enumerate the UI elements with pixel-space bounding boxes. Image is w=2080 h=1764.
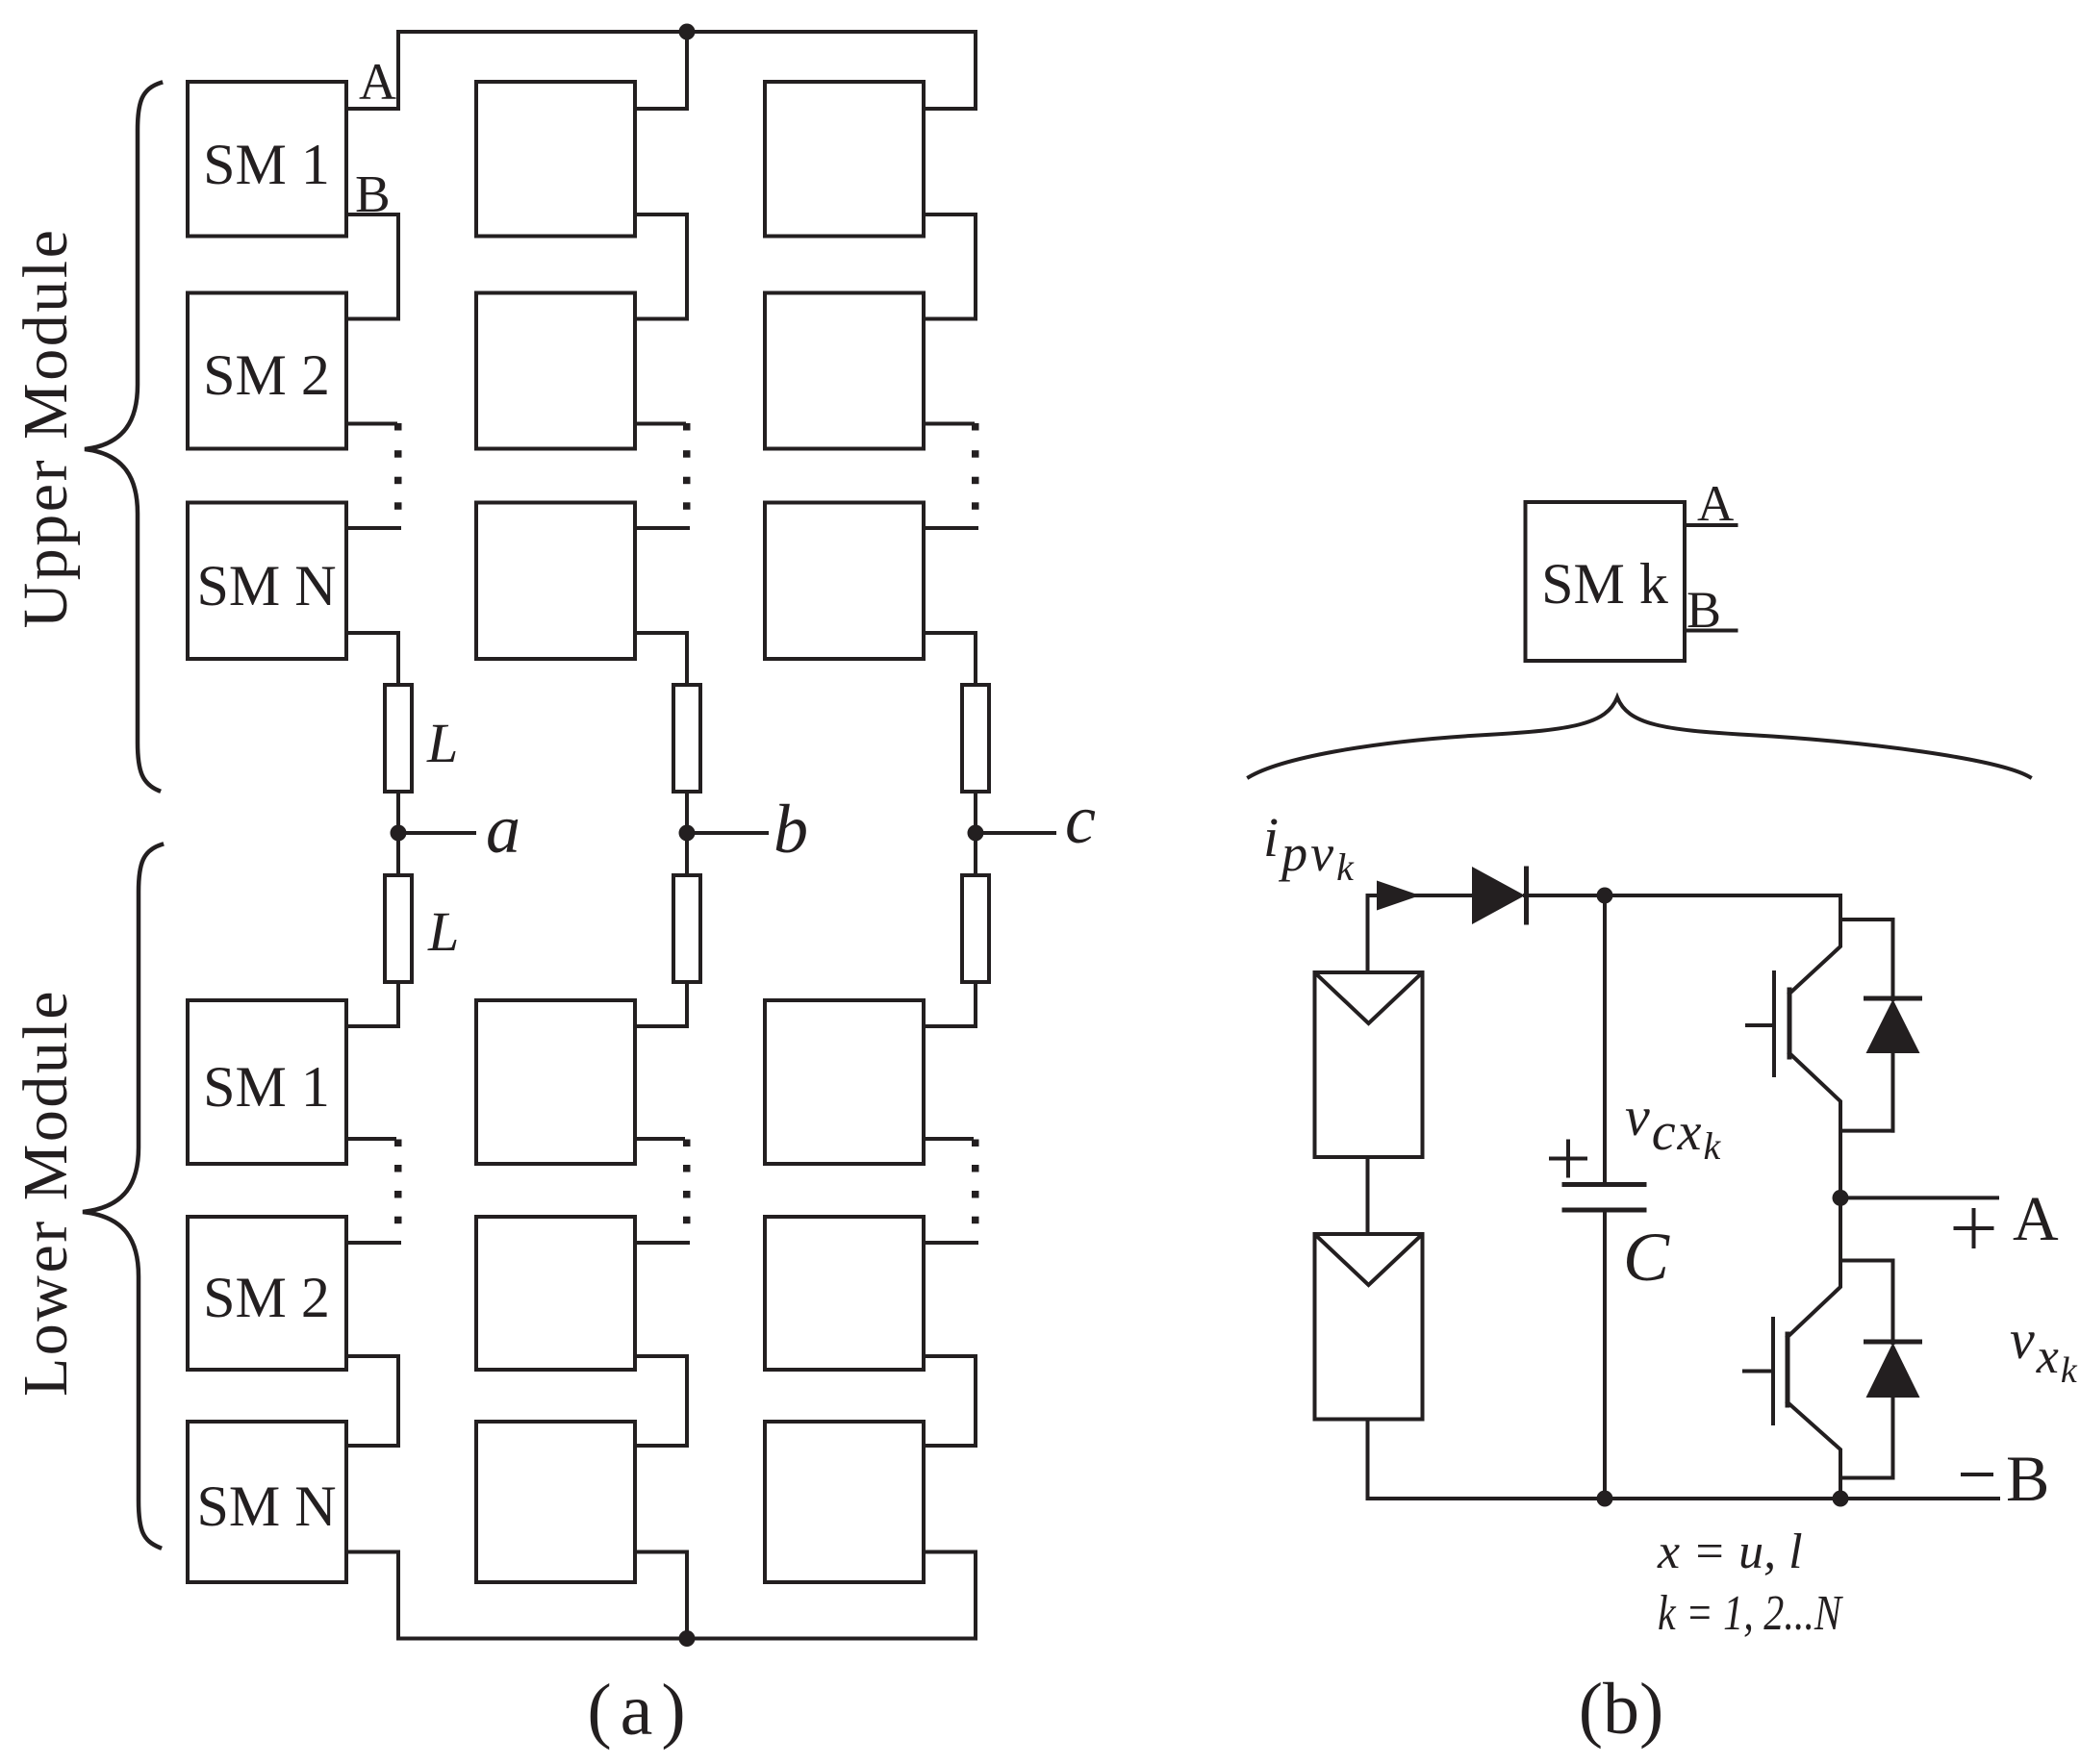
- svg-text:k = 1, 2...N: k = 1, 2...N: [1658, 1586, 1844, 1641]
- IGBT T1 emitter: [1789, 1053, 1840, 1197]
- node cap top: [1597, 888, 1613, 904]
- IGBT T1 emitter-diode stub: [1840, 1129, 1893, 1133]
- wire inductor to node a: [396, 792, 400, 875]
- diode D2 triangle: [1866, 1343, 1920, 1398]
- IGBT T1 gate bar: [1772, 972, 1776, 1075]
- svg-text:L: L: [427, 900, 459, 963]
- svg-text:A: A: [2013, 1184, 2059, 1254]
- wire pv2 to rail: [1366, 1420, 1370, 1499]
- node bottom junction: [679, 1630, 696, 1647]
- wire node c lead: [976, 831, 1054, 835]
- plus sign A: [1956, 1210, 1992, 1247]
- wire col2 top drop: [685, 32, 689, 109]
- wire B stub L1-1: [346, 1137, 394, 1141]
- svg-text:SM N: SM N: [196, 554, 336, 617]
- SM box L2-3: [476, 1422, 635, 1582]
- inductor L upper c: [962, 685, 989, 792]
- svg-text:(b): (b): [1579, 1669, 1664, 1750]
- node c dot: [968, 825, 984, 842]
- diode D cathode bar: [1524, 869, 1529, 922]
- wire B stub U3-2: [924, 422, 973, 426]
- IGBT T2 gate bar: [1771, 1319, 1775, 1424]
- wire B stub L1-3 to bottom bus: [346, 1552, 398, 1639]
- wire A stub U2-1: [635, 107, 687, 111]
- SM box L2-2: [476, 1217, 635, 1370]
- wire inductor to A stub L1-1: [346, 982, 398, 1026]
- svg-text:SM 2: SM 2: [203, 343, 330, 407]
- wire A stub U1-3: [346, 526, 399, 530]
- wire B stub U3-1: [924, 213, 976, 216]
- wire diode to T1: [1525, 894, 1840, 897]
- wire B stub U1-3 to inductor: [346, 633, 398, 685]
- wire inductor to A stub L3-1: [924, 982, 976, 1026]
- minus sign B: [1963, 1473, 1991, 1476]
- wire inductor to node c: [974, 792, 977, 875]
- bottom rail (b): [1368, 1497, 1999, 1500]
- dots ellipsis col3 lower: [972, 1140, 979, 1224]
- IGBT T2 emitter-diode stub: [1840, 1476, 1893, 1480]
- diode D series: [1472, 867, 1525, 924]
- wire B2 to A3 lower col1: [346, 1356, 398, 1446]
- wire B1-A2 col3: [924, 214, 976, 319]
- wire B stub SMk: [1685, 629, 1737, 633]
- wire B2-A3 lower col2: [635, 1356, 687, 1446]
- wire B stub L3-1: [924, 1137, 972, 1141]
- wire pv1-pv2: [1366, 1157, 1370, 1234]
- svg-text:b: b: [774, 791, 808, 868]
- svg-text:SM k: SM k: [1541, 552, 1668, 616]
- svg-text:B: B: [355, 164, 391, 223]
- node cap bottom: [1597, 1491, 1613, 1507]
- capacitor C bottom plate: [1564, 1208, 1644, 1213]
- svg-text:SM 1: SM 1: [203, 133, 330, 196]
- plus sign cap: [1551, 1142, 1585, 1176]
- svg-text:B: B: [2006, 1442, 2049, 1515]
- wire pv top riser: [1366, 895, 1370, 972]
- IGBT T2 body bar: [1786, 1334, 1790, 1405]
- svg-text:L: L: [426, 712, 458, 774]
- node a dot: [391, 825, 407, 842]
- svg-text:Upper Module: Upper Module: [11, 228, 81, 629]
- SM box U1-2: [188, 293, 346, 449]
- SM box L3-3: [765, 1422, 924, 1582]
- SM box U3-2: [765, 293, 924, 449]
- wire A stub U3-3: [924, 526, 977, 530]
- wire B stub U2-3 to inductor: [635, 633, 687, 685]
- svg-text:x = u, l: x = u, l: [1657, 1525, 1803, 1579]
- PV module 1: [1315, 972, 1423, 1157]
- inductor L lower a: [385, 875, 412, 982]
- capacitor C top plate: [1564, 1182, 1644, 1187]
- wire B1 to A2: [346, 214, 398, 319]
- dots ellipsis col2 lower: [683, 1140, 691, 1224]
- diode D1 cathode bar: [1866, 996, 1920, 1001]
- svg-text:B: B: [1687, 581, 1721, 639]
- svg-text:SM 1: SM 1: [203, 1055, 330, 1119]
- wire B stub U3-3 to inductor: [924, 633, 976, 685]
- svg-text:Lower Module: Lower Module: [11, 989, 81, 1397]
- SM box L1-1: [188, 1000, 346, 1164]
- wire B stub U1-1: [346, 213, 398, 216]
- dots ellipsis col1 lower: [394, 1140, 402, 1224]
- wire B stub L2-3 to bottom bus: [635, 1552, 687, 1639]
- svg-text:a: a: [486, 791, 520, 868]
- wire node b lead: [687, 831, 767, 835]
- SM box L1-2: [188, 1217, 346, 1370]
- SM box U1-3: [188, 503, 346, 660]
- bottom bus wire: [398, 1637, 976, 1641]
- IGBT T1 collector-diode stub: [1840, 918, 1893, 921]
- wire B stub U1-2: [346, 422, 395, 426]
- svg-text:SM 2: SM 2: [203, 1266, 330, 1329]
- wire inductor to node b: [685, 792, 689, 875]
- IGBT T2 gate lead: [1744, 1370, 1773, 1373]
- wire A stub SMk: [1685, 523, 1737, 527]
- SM box U3-3: [765, 503, 924, 660]
- brace upper module: [85, 83, 161, 791]
- diode D2 cathode bar: [1866, 1340, 1920, 1345]
- SM box L3-1: [765, 1000, 924, 1164]
- SM box L2-1: [476, 1000, 635, 1164]
- top bus wire: [398, 32, 976, 109]
- SM box L3-2: [765, 1217, 924, 1370]
- IGBT T2 emitter: [1788, 1402, 1840, 1499]
- brace lower module: [83, 844, 162, 1548]
- svg-text:SM N: SM N: [196, 1474, 336, 1538]
- wire arrow to diode: [1368, 894, 1473, 897]
- inductor L lower b: [673, 875, 700, 982]
- wire B stub U2-1: [635, 213, 687, 216]
- IGBT T2 collector drop: [1788, 1197, 1840, 1337]
- wire A stub L3-2: [924, 1241, 977, 1245]
- SM box U1-1: [188, 82, 346, 237]
- SM box U3-1: [765, 82, 924, 237]
- node emitter bottom: [1833, 1491, 1849, 1507]
- IGBT T1 collector drop: [1789, 895, 1840, 994]
- diode D2 anode lead: [1891, 1398, 1895, 1478]
- diode D2 top lead: [1891, 1261, 1895, 1344]
- wire A stub U2-3: [635, 526, 688, 530]
- arrow i_pv: [1377, 881, 1420, 911]
- IGBT T1 body bar: [1788, 990, 1792, 1057]
- wire inductor to A stub L2-1: [635, 982, 687, 1026]
- node b dot: [679, 825, 696, 842]
- inductor L upper b: [673, 685, 700, 792]
- inductor L lower c: [962, 875, 989, 982]
- diode D1 anode lead: [1891, 1053, 1895, 1131]
- SM box U2-3: [476, 503, 635, 660]
- diode D1 triangle: [1866, 999, 1920, 1053]
- SM k box: [1526, 502, 1686, 661]
- wire A stub U1-1: [346, 107, 398, 111]
- SM box U2-1: [476, 82, 635, 237]
- PV module 2: [1315, 1234, 1423, 1420]
- svg-text:A: A: [1697, 476, 1734, 532]
- inductor L upper a: [385, 685, 412, 792]
- SM box L1-3: [188, 1422, 346, 1582]
- wire B1-A2 col2: [635, 214, 687, 319]
- capacitor C top lead: [1603, 895, 1607, 1182]
- diode D1 top lead: [1891, 920, 1895, 999]
- node top junction: [679, 24, 696, 40]
- brace submodule detail: [1249, 697, 2030, 777]
- wire A stub L2-2: [635, 1241, 688, 1245]
- wire B2-A3 lower col3: [924, 1356, 976, 1446]
- svg-text:C: C: [1623, 1219, 1670, 1296]
- SM box U2-2: [476, 293, 635, 449]
- wire node a lead: [398, 831, 474, 835]
- svg-text:(a): (a): [587, 1670, 694, 1751]
- dots ellipsis col2 upper: [683, 423, 691, 510]
- IGBT T1 gate lead: [1747, 1023, 1774, 1027]
- dots ellipsis col1 upper: [394, 423, 402, 510]
- svg-text:A: A: [359, 53, 396, 111]
- capacitor C bottom lead: [1603, 1212, 1607, 1499]
- wire B stub L3-3 to bottom bus: [924, 1552, 976, 1639]
- dots ellipsis col3 upper: [972, 423, 979, 510]
- wire A stub U3-1: [924, 107, 976, 111]
- IGBT T2 collector-diode stub: [1840, 1259, 1893, 1263]
- node mid A: [1833, 1190, 1849, 1206]
- wire B stub U2-2: [635, 422, 684, 426]
- wire B stub L2-1: [635, 1137, 683, 1141]
- svg-text:c: c: [1065, 781, 1096, 858]
- wire A terminal: [1840, 1196, 1997, 1199]
- wire A stub L1-2: [346, 1241, 399, 1245]
